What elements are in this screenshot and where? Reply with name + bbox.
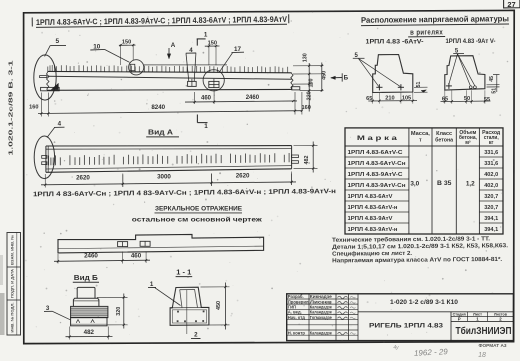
title block stadia list listov header xyxy=(451,316,514,318)
title block document code xyxy=(358,311,514,313)
plate inside circle 10 xyxy=(130,64,135,70)
view A detail ellipse 4 xyxy=(34,136,54,179)
svg-text:ВЗАМ. ИНВ. №: ВЗАМ. ИНВ. № xyxy=(11,235,15,265)
view A stirrup ticks xyxy=(49,153,290,165)
bottom dim line 8240 with 160 left xyxy=(38,111,302,114)
heading: raspolozhenie armatury xyxy=(361,14,509,37)
section 1-1 inner bottom outline xyxy=(172,310,206,323)
main beam stirrup ticks xyxy=(48,65,288,73)
edge artifact marks xyxy=(0,293,5,335)
section 1-1 rebar dots xyxy=(177,311,179,313)
svg-text:ИНВ. № ПОДЛ.: ИНВ. № ПОДЛ. xyxy=(11,302,15,332)
vertical dim line B (450) xyxy=(321,63,323,92)
view A marka caption xyxy=(33,188,336,198)
title block signatures xyxy=(338,296,348,298)
main beam left end break line xyxy=(47,71,50,91)
scan speckles xyxy=(183,61,184,62)
section mark 1 (bottom) xyxy=(196,115,198,123)
section 1-1 outline xyxy=(170,287,209,325)
view arrow B xyxy=(331,77,342,79)
view B dim 320 xyxy=(97,296,128,298)
prestress bar marks (plus) left section xyxy=(376,86,382,88)
specification table grid xyxy=(345,128,503,234)
embedded plate under flag 4 xyxy=(188,81,197,86)
sheet number box 27 xyxy=(504,0,520,8)
dim 51 left section xyxy=(414,86,428,88)
detail circle 10 xyxy=(129,60,144,75)
view A dim 482 xyxy=(294,145,318,147)
bottom beam plate 2 xyxy=(140,241,150,246)
bottom beam dims 2460 460 xyxy=(54,260,150,261)
svg-text:4у: 4у xyxy=(393,345,399,351)
dims 45 51 right section xyxy=(487,84,500,86)
technical notes xyxy=(332,235,509,264)
svg-text:1.020.1-2с/89 В. 3-1: 1.020.1-2с/89 В. 3-1 xyxy=(9,61,15,156)
svg-text:1962 - 29: 1962 - 29 xyxy=(414,347,449,358)
bottom beam outline xyxy=(58,234,264,253)
section 1-1 inner cavity xyxy=(180,290,198,308)
section 1-1 center axis xyxy=(186,290,188,334)
prestress bar mark plus right section xyxy=(446,85,452,87)
dims 65 50 55 right section xyxy=(444,90,446,104)
main beam left end tab xyxy=(40,76,47,78)
view B column stub xyxy=(77,287,95,298)
prestress bar circles right section xyxy=(469,86,472,89)
embedded plate inside circle 17 xyxy=(209,81,219,87)
dim line 460/2460 under beam xyxy=(185,101,297,102)
main beam body lines xyxy=(48,71,292,72)
view B laminated pad (hatched) xyxy=(71,306,108,317)
title block left columns xyxy=(308,294,310,341)
leader line from circle 10 (stirrup top line) xyxy=(144,64,227,66)
section 1-1 dim 450 xyxy=(201,286,230,288)
title block girder name xyxy=(450,312,452,341)
detail circle 17 xyxy=(203,70,224,91)
bottom beam plate 1 xyxy=(118,242,128,247)
main beam detail circle 5 (left end) xyxy=(34,55,56,100)
view B bottom block xyxy=(71,318,107,326)
view B dim 482 xyxy=(69,327,71,340)
vertical dim line A (130/100/220) xyxy=(308,63,310,112)
view B upper block xyxy=(73,298,99,306)
dims 65 210 105 xyxy=(372,93,374,104)
svg-text:ФОРМАТ А3: ФОРМАТ А3 xyxy=(479,343,508,348)
view A left end tabs xyxy=(42,156,47,159)
main beam left anchor triangle (hatched) xyxy=(51,83,58,89)
bottom beam inner line xyxy=(58,246,264,249)
main beam right end plate xyxy=(292,87,300,90)
cross-section 6AtV outline xyxy=(373,55,413,93)
svg-text:ПОДП. И ДАТА: ПОДП. И ДАТА xyxy=(11,269,15,298)
main beam left support plate xyxy=(41,87,60,90)
view A right end tabs xyxy=(292,155,299,158)
main beam right end break line xyxy=(291,73,293,90)
right dimension chain extension lines xyxy=(293,65,324,67)
title block outer xyxy=(287,294,514,341)
left margin stamp table xyxy=(7,233,21,336)
cross-section 9AtV outline xyxy=(445,56,485,90)
svg-text:18: 18 xyxy=(478,352,486,359)
svg-text:27: 27 xyxy=(507,0,515,9)
view A beam body lines xyxy=(46,145,292,147)
view A dims 2620 3000 2620 xyxy=(41,182,296,185)
top marka title line xyxy=(32,14,289,27)
